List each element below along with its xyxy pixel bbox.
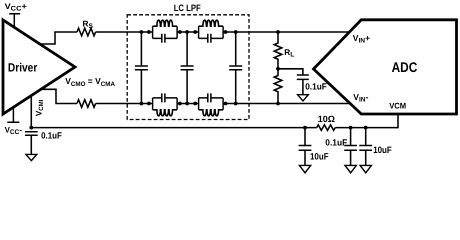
svg-text:ADC: ADC bbox=[392, 59, 418, 75]
node dot: VCM rail 10uF right bbox=[364, 126, 368, 130]
wire: VCM rail from driver node to 10ohm resistor bbox=[31, 127, 316, 129]
capacitor 10uF (right, VCM rail) bbox=[365, 128, 367, 146]
wire: bottom rail between LC blocks bbox=[177, 103, 199, 105]
node dot: bottom rail LC4 right bbox=[224, 102, 228, 106]
capacitor shunt C1 (left, inside LPF) bbox=[140, 32, 142, 104]
node dot: bottom rail LC3 left bbox=[147, 102, 151, 106]
svg-text:VCM: VCM bbox=[389, 102, 406, 111]
LC tank L2/C5 (top row, right): parallel inductor and capacitor bbox=[199, 20, 224, 43]
node dot: top rail LC1 left bbox=[147, 30, 151, 34]
capacitor 10uF (left, VCM rail) bbox=[304, 128, 306, 146]
power stub VCC- bbox=[7, 107, 19, 123]
node dot: top rail LC2 left bbox=[193, 30, 197, 34]
wire: top output step from driver to Rs bbox=[38, 32, 77, 44]
node dot: VCMI / 0.1uF bbox=[29, 126, 33, 130]
svg-text:0.1uF: 0.1uF bbox=[305, 81, 327, 91]
LC tank L3/C6 (bottom row, left): parallel capacitor and inductor bbox=[153, 93, 178, 116]
op-amp driver U1 bbox=[3, 20, 75, 114]
node dot: top rail LC1 right bbox=[178, 30, 182, 34]
node dot: VCM rail 0.1uF bbox=[349, 126, 353, 130]
node dot: RL top bbox=[276, 30, 280, 34]
node dot: RL bottom bbox=[276, 102, 280, 106]
node dot: top rail shunt C1 bbox=[140, 30, 144, 34]
resistor (bottom series, unlabeled) bbox=[77, 100, 96, 108]
ground (10uF left) bbox=[299, 165, 310, 172]
ADC U2 pentagon bbox=[314, 20, 457, 114]
svg-text:10uF: 10uF bbox=[310, 152, 329, 162]
svg-text:10uF: 10uF bbox=[373, 145, 392, 155]
svg-text:Driver: Driver bbox=[8, 61, 38, 75]
resistor RL lower half bbox=[274, 69, 282, 104]
svg-text:LC LPF: LC LPF bbox=[174, 3, 201, 13]
svg-text:VCC+: VCC+ bbox=[5, 2, 28, 13]
capacitor 0.1uF (middle, VCM rail) bbox=[350, 128, 352, 146]
node dot: VCM rail 10uF left bbox=[303, 126, 307, 130]
wire: top rail Rs to LC block1 bbox=[96, 31, 153, 33]
ground (RL cap) bbox=[298, 95, 309, 101]
node dot: top rail LC2 right bbox=[224, 30, 228, 34]
wire: top rail LC block2 to ADC VIN+ bbox=[223, 31, 351, 33]
ground (10uF right) bbox=[360, 165, 371, 172]
svg-text:0.1uF: 0.1uF bbox=[325, 137, 347, 147]
svg-text:VCC-: VCC- bbox=[5, 125, 23, 136]
node dot: top rail shunt C2 bbox=[185, 30, 189, 34]
resistor RS (top) bbox=[77, 28, 96, 36]
capacitor 0.1uF (driver VCMI node) bbox=[25, 132, 38, 136]
svg-text:RS: RS bbox=[83, 18, 94, 30]
ground (VCMI cap) bbox=[26, 154, 37, 160]
node dot: bottom rail shunt C1 bbox=[140, 102, 144, 106]
wire: VCMI pin of driver down to VCM rail bbox=[30, 95, 32, 128]
wire: bottom rail resistor to LC block1 bbox=[96, 103, 153, 105]
resistor RL upper half bbox=[274, 32, 282, 69]
node dot: bottom rail shunt C2 bbox=[185, 102, 189, 106]
wire: bottom output step from driver to series resistor bbox=[39, 89, 77, 103]
wire: bottom rail LC block2 to ADC VIN- bbox=[223, 103, 352, 105]
node dot: RL midpoint bbox=[276, 67, 280, 71]
wire: top rail between LC blocks bbox=[177, 31, 199, 33]
wire: VCM rail from 10ohm resistor to ADC VCM pin bbox=[335, 113, 398, 128]
ground (0.1uF middle) bbox=[345, 165, 356, 172]
svg-text:VCMO = VCMA: VCMO = VCMA bbox=[65, 76, 115, 88]
resistor 10 ohm (VCM rail) bbox=[317, 125, 335, 131]
capacitor 0.1uF (at RL midpoint) bbox=[297, 75, 309, 79]
svg-text:0.1uF: 0.1uF bbox=[41, 131, 62, 141]
capacitor shunt C3 (right, inside LPF) bbox=[235, 32, 237, 104]
capacitor shunt C2 (middle, inside LPF) bbox=[186, 32, 188, 104]
power stub VCC+ bbox=[9, 14, 20, 29]
LC tank L1/C4 (top row, left): parallel inductor and capacitor bbox=[153, 20, 178, 43]
node dot: top rail shunt C3 bbox=[234, 30, 238, 34]
svg-text:VCMI: VCMI bbox=[34, 99, 46, 116]
svg-text:10Ω: 10Ω bbox=[318, 114, 335, 124]
node dot: bottom rail LC4 left bbox=[193, 102, 197, 106]
node dot: bottom rail LC3 right bbox=[178, 102, 182, 106]
svg-text:RL: RL bbox=[284, 47, 294, 59]
LC tank L4/C7 (bottom row, right): parallel capacitor and inductor bbox=[199, 93, 224, 116]
node dot: bottom rail shunt C3 bbox=[234, 102, 238, 106]
wire: RL midpoint to 0.1uF cap bbox=[278, 69, 303, 75]
LC LPF dashed box bbox=[127, 15, 249, 120]
